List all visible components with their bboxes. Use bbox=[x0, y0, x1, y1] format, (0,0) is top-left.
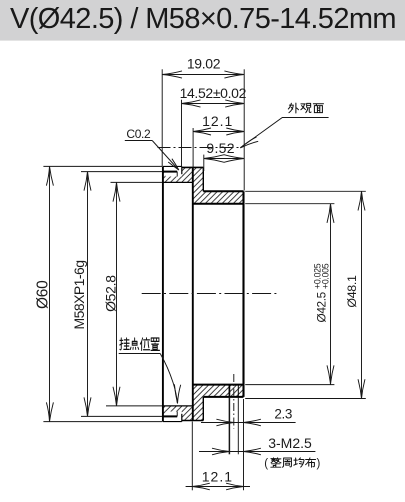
extension line M58 top bbox=[81, 171, 162, 173]
part outline: phi52.8 top edge bbox=[163, 181, 193, 183]
arrow 19.02 left bbox=[162, 71, 182, 78]
arrow 3-M2.5 right bbox=[244, 448, 261, 455]
arrow 2.3 right bbox=[244, 419, 261, 426]
part outline: top step face bbox=[202, 167, 204, 191]
arrow M58 top bbox=[84, 172, 91, 191]
arrow 12.1 right bbox=[226, 128, 244, 135]
extension line phi52.8 top bbox=[111, 181, 163, 183]
appearance-face leader arrowhead bbox=[240, 137, 258, 148]
svg-text:Ø48.1: Ø48.1 bbox=[345, 275, 359, 308]
label guan (view) bbox=[301, 103, 311, 112]
svg-text:C0.2: C0.2 bbox=[126, 127, 151, 141]
extension line M2.5 hole left wall bbox=[228, 397, 230, 454]
label jun (even) bbox=[294, 458, 304, 467]
label gua (hang) bbox=[120, 338, 130, 350]
M2.5 tapped hole right wall bbox=[237, 385, 239, 397]
extension line phi48.1 top bbox=[245, 190, 366, 192]
dim line 19.02 bbox=[162, 74, 244, 76]
label zhou (circumference) bbox=[282, 458, 291, 467]
bolt-hole reference dash-dot line bbox=[158, 147, 241, 149]
part outline: phi48.1 bottom edge bbox=[203, 396, 243, 398]
svg-text:14.52±0.02: 14.52±0.02 bbox=[180, 85, 247, 101]
arrow 19.02 right bbox=[224, 71, 244, 78]
svg-text:12.1: 12.1 bbox=[202, 113, 233, 129]
dim line 12.1 bbox=[193, 131, 244, 133]
svg-text:12.1: 12.1 bbox=[202, 468, 233, 484]
extension line phi42.5 bottom bbox=[245, 384, 334, 386]
part outline: bottom thread crest bar bbox=[162, 415, 177, 417]
arrow M58 bottom bbox=[84, 397, 91, 416]
dim line phi48.1 bbox=[361, 191, 363, 398]
extension line phi42.5 top bbox=[245, 203, 334, 205]
svg-text:3-M2.5: 3-M2.5 bbox=[268, 435, 312, 451]
part outline: top relief notch wall bbox=[176, 172, 178, 177]
arrow phi42.5 bottom bbox=[327, 365, 334, 384]
svg-text:M58XP1-6g: M58XP1-6g bbox=[71, 261, 87, 330]
dim line M58XP1-6g bbox=[87, 172, 89, 417]
label dian (point) bbox=[130, 338, 138, 349]
C0.2 underline bbox=[125, 140, 152, 142]
dim line phi60 bbox=[49, 166, 51, 421]
arrow 12.1 bottom right bbox=[226, 483, 243, 490]
arrow 14.52 left bbox=[182, 100, 201, 107]
arrow phi42.5 top bbox=[327, 204, 334, 223]
extension line right face (top dims) bbox=[243, 69, 245, 190]
extension line 14.52 step bbox=[181, 100, 183, 167]
appearance-face leader line bbox=[240, 118, 328, 148]
extension line right face bottom bbox=[243, 399, 245, 490]
arrow 12.1 bottom left bbox=[192, 483, 210, 490]
dim line 9.52 bbox=[204, 158, 244, 160]
arrow phi60 bottom bbox=[46, 402, 53, 421]
dim line 2.3 bbox=[201, 422, 296, 424]
part outline: bottom relief notch wall bbox=[176, 412, 178, 417]
dim line 12.1 bottom bbox=[186, 486, 250, 488]
extension line 12.1 bottom left bbox=[191, 422, 193, 491]
arrow 2.3 left bbox=[216, 419, 233, 426]
part outline: bottom step face bbox=[202, 397, 204, 421]
arrow 12.1 left bbox=[193, 128, 211, 135]
arrow phi52.8 bottom bbox=[113, 387, 120, 406]
arrow phi48.1 top bbox=[358, 191, 365, 210]
extension line 9.52 bbox=[203, 155, 205, 171]
svg-text:2.3: 2.3 bbox=[274, 406, 292, 421]
label wei (position) bbox=[140, 338, 149, 351]
svg-text:Ø42.5: Ø42.5 bbox=[315, 291, 329, 322]
arrow phi48.1 bottom bbox=[358, 379, 365, 398]
extension line M58 bottom bbox=[81, 415, 162, 417]
part outline: top thread crest bar bbox=[162, 171, 177, 173]
dim line 14.52 bbox=[182, 103, 245, 105]
part outline: phi48.1 top edge bbox=[203, 190, 243, 192]
svg-text:Ø52.8: Ø52.8 bbox=[103, 275, 119, 312]
extension line phi60 top bbox=[43, 165, 162, 167]
part outline: bottom lip edge bbox=[163, 421, 182, 423]
part outline: phi52.8 bottom edge bbox=[163, 405, 193, 407]
hang-point leader arrowhead bbox=[174, 384, 180, 403]
hang-point underline bbox=[119, 353, 161, 355]
svg-text:19.02: 19.02 bbox=[187, 56, 221, 72]
svg-text:Ø60: Ø60 bbox=[34, 280, 51, 309]
svg-text:(: ( bbox=[264, 458, 268, 470]
arrow 9.52 right bbox=[224, 155, 244, 163]
arrow phi60 top bbox=[46, 166, 53, 185]
extension line phi48.1 bottom bbox=[245, 398, 366, 400]
arrow 14.52 right bbox=[225, 100, 244, 107]
title bar bbox=[0, 0, 405, 41]
M2.5 tapped hole left wall bbox=[228, 385, 230, 397]
label wai (appearance) bbox=[288, 103, 298, 113]
part outline: left face bbox=[162, 166, 164, 421]
svg-text:9.52: 9.52 bbox=[206, 140, 234, 156]
extension line left face (top dims) bbox=[161, 69, 163, 166]
svg-text:): ) bbox=[317, 458, 321, 470]
part outline: top lip edge bbox=[163, 165, 182, 167]
extension line M2.5 hole right wall bbox=[237, 397, 239, 454]
arrow 9.52 left bbox=[204, 155, 224, 163]
dim line 3-M2.5 bbox=[199, 451, 315, 453]
arrow phi52.8 top bbox=[113, 182, 120, 201]
extension line phi52.8 bottom bbox=[106, 405, 162, 407]
label zhi (placement) bbox=[151, 338, 160, 350]
part outline: bottom chamfer step bbox=[181, 414, 183, 422]
part outline: right face bbox=[242, 191, 244, 397]
part outline: top chamfer step bbox=[181, 166, 183, 174]
hang-point leader line bbox=[160, 354, 177, 404]
part outline: bore top edge bbox=[193, 203, 244, 205]
M2.5 hole centerline bbox=[233, 374, 235, 429]
arrow 3-M2.5 left bbox=[212, 448, 229, 455]
C0.2 leader line bbox=[152, 141, 179, 171]
part outline: bore bottom edge bbox=[193, 384, 244, 386]
part outline: inner step edge bbox=[192, 167, 194, 420]
extension line 12.1 top bbox=[192, 128, 194, 167]
label mian (face) bbox=[313, 104, 323, 113]
label zheng (whole) bbox=[271, 458, 281, 467]
C0.2 leader arrowhead bbox=[168, 159, 179, 170]
dim text phi42.5 with tolerance bbox=[313, 263, 331, 322]
section hatching lower flange and barrel bbox=[163, 412, 166, 417]
section hatching upper flange and barrel bbox=[163, 172, 166, 177]
dim line phi42.5 bbox=[330, 204, 332, 385]
dim line phi52.8 bbox=[116, 182, 118, 406]
main axis centerline bbox=[142, 293, 278, 295]
part outline: top edge right of step bbox=[182, 166, 204, 168]
svg-text:+0.005: +0.005 bbox=[320, 263, 330, 289]
label bu (distributed) bbox=[306, 458, 316, 468]
part outline: bottom edge right of step bbox=[182, 420, 204, 422]
extension line phi60 bottom bbox=[43, 421, 162, 423]
